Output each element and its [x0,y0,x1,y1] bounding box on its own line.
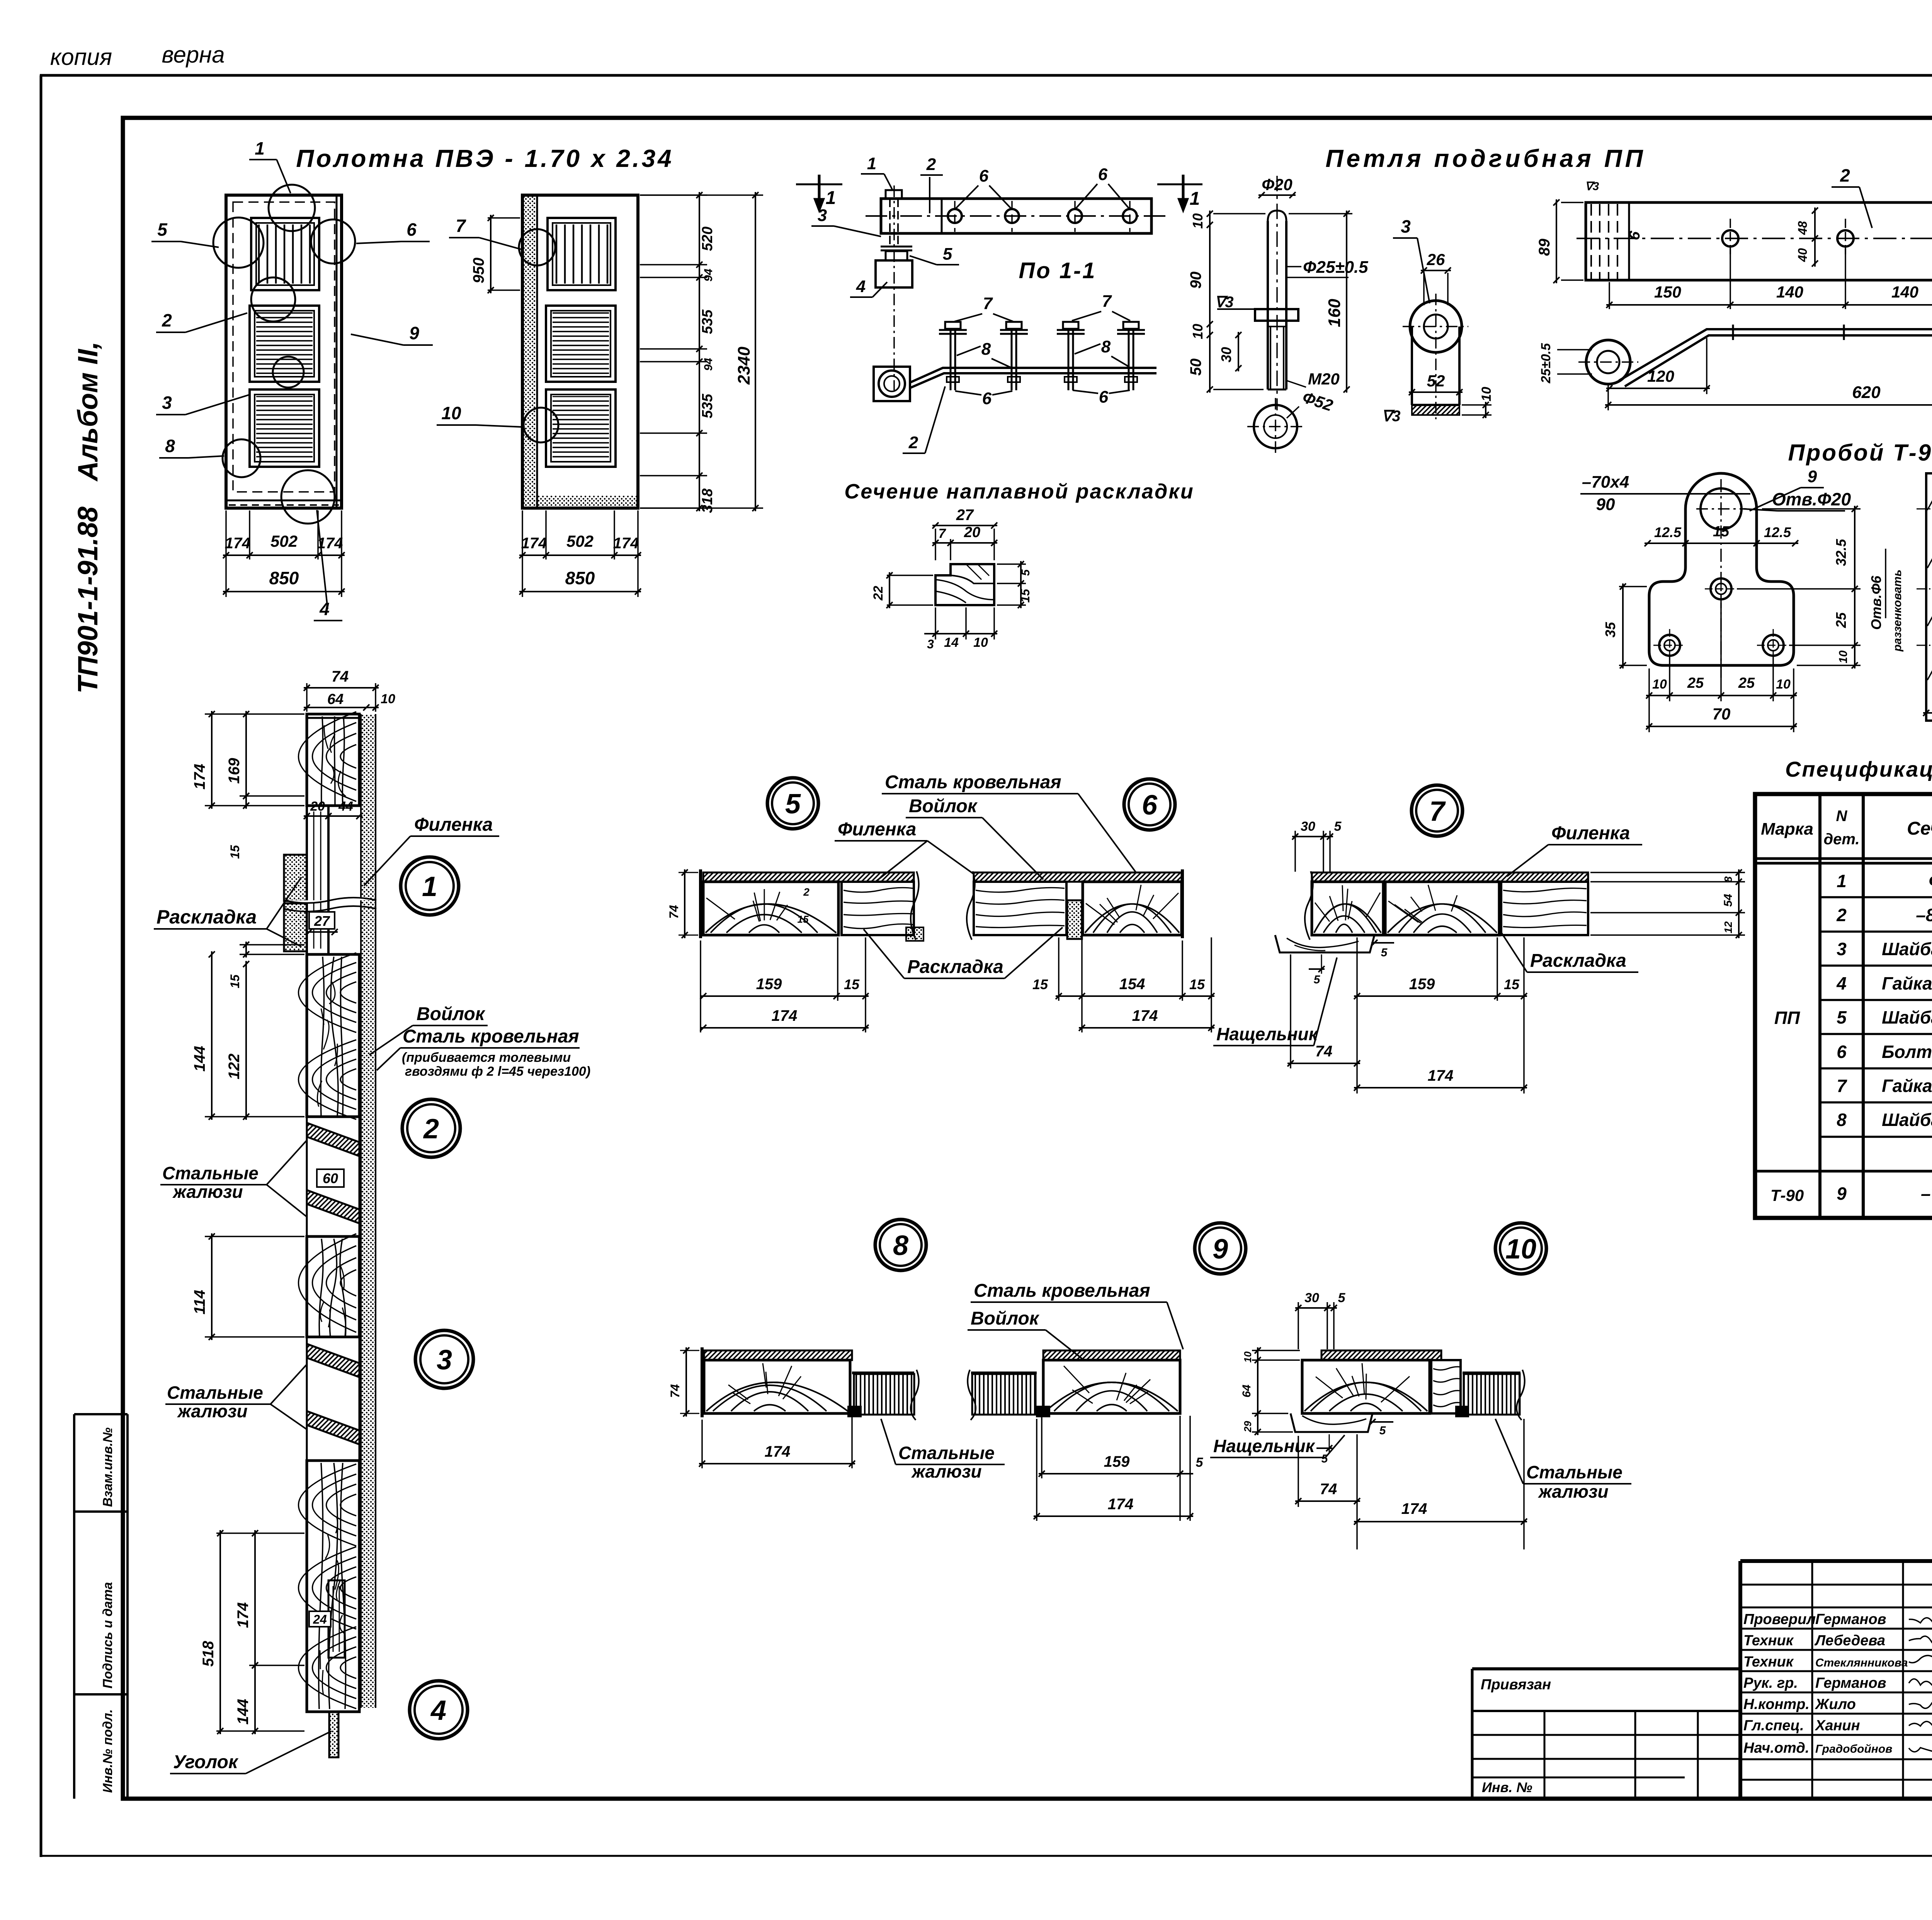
strap callout 2 [1832,165,1872,228]
svg-text:8: 8 [165,436,175,456]
svg-text:2: 2 [1840,165,1850,185]
bolt detail PP item 1 [1217,176,1298,410]
svg-text:30: 30 [1218,347,1234,362]
svg-text:30: 30 [1301,819,1315,834]
label stal krovelnaya 9 [971,1281,1183,1349]
strap dim 620 [1605,338,1932,410]
jamb joint small dims [304,799,362,935]
raskladka section detail [935,564,994,605]
svg-text:5: 5 [1379,1424,1386,1437]
svg-text:5: 5 [1334,819,1342,834]
privyazan table [1472,1669,1740,1799]
label Voylok jamb [369,1004,488,1055]
svg-text:Нащельник: Нащельник [1216,1024,1319,1044]
svg-text:74: 74 [1315,1043,1333,1060]
svg-text:52: 52 [1427,372,1445,390]
title block signature grid [1740,1561,1932,1799]
svg-text:∇3: ∇3 [1585,180,1599,193]
svg-text:Филенка: Филенка [414,815,493,835]
svg-text:174: 174 [613,535,639,552]
section 7 dims [1287,937,1527,1093]
svg-text:Рук. гр.: Рук. гр. [1743,1675,1798,1691]
section 7 right dim chain [1590,869,1745,938]
hinge bar callout 5 [910,245,959,265]
jamb felt and steel layer [361,714,376,1708]
label nashelnik 9 [1210,1435,1345,1457]
svg-text:27: 27 [314,913,330,929]
svg-text:9: 9 [1213,1234,1228,1265]
svg-text:Инв. №: Инв. № [1482,1779,1532,1795]
svg-text:Ханин: Ханин [1815,1718,1860,1734]
panel A callout 2 [156,310,247,332]
section 10 drawing [1291,1350,1525,1432]
panel A hatched panel 2 [250,389,319,467]
svg-text:174: 174 [521,535,547,552]
svg-text:850: 850 [269,568,299,588]
outer border left line [40,75,43,1857]
svg-text:Раскладка: Раскладка [907,957,1003,977]
svg-text:6: 6 [979,167,989,185]
svg-text:Шайба d20: Шайба d20 [1882,1007,1932,1027]
svg-text:Шайба d 16: Шайба d 16 [1882,1110,1932,1130]
svg-text:Стеклянникова: Стеклянникова [1815,1656,1908,1669]
svg-text:32.5: 32.5 [1833,539,1849,566]
svg-text:140: 140 [1776,283,1803,301]
section 10 dims [1295,1419,1527,1549]
svg-text:160: 160 [1325,299,1344,327]
section 6 dims [1032,937,1214,1032]
svg-text:159: 159 [1104,1453,1130,1470]
section mark 1-1 left [796,175,842,212]
svg-text:5: 5 [1837,1007,1847,1027]
jamb strip top dims [304,668,395,712]
svg-text:10: 10 [1190,213,1206,229]
section 10 left dim chain [1240,1347,1300,1435]
jamb dim 114 [191,1233,304,1340]
svg-text:5: 5 [1381,946,1388,959]
label filenka 7 [1507,823,1642,876]
svg-text:раззенковать: раззенковать [1891,570,1904,652]
T-90 callout 9 [1750,467,1824,511]
svg-text:6: 6 [406,219,417,240]
svg-text:Градобойнов: Градобойнов [1815,1743,1892,1755]
detail circle 6 [1124,779,1175,830]
svg-text:Техник: Техник [1743,1633,1794,1649]
section 7 drawing [1275,871,1588,952]
detail circle 8 [875,1219,926,1270]
panel A callout 8 [159,436,224,458]
detail circle 5 [767,778,818,829]
svg-text:74: 74 [668,1384,682,1398]
T-90 label -70x4 90 [1580,473,1750,514]
bolt label M20 [1287,370,1340,388]
svg-text:По 1-1: По 1-1 [1019,258,1096,283]
svg-text:5: 5 [1019,569,1032,576]
svg-text:30: 30 [1304,1291,1319,1305]
svg-text:7: 7 [1837,1076,1847,1096]
svg-text:Филенка: Филенка [1551,823,1630,844]
svg-text:7: 7 [1102,292,1112,311]
svg-text:6: 6 [1837,1042,1847,1062]
svg-text:Ф25: Ф25 [1929,871,1932,891]
svg-text:3: 3 [927,637,934,651]
svg-text:10: 10 [441,403,461,423]
strap small dims 48 40 [1796,207,1818,267]
svg-text:Войлок: Войлок [417,1004,486,1024]
svg-text:N: N [1836,808,1848,825]
svg-text:Болт М16: Болт М16 [1882,1042,1932,1062]
assembly callouts 6 [955,388,1130,408]
jamb bottom corner piece [307,1712,359,1757]
bolt end view F52 [1247,388,1335,456]
svg-text:3: 3 [1401,216,1411,236]
jamb wood block 2 [307,954,359,1117]
svg-text:950: 950 [470,258,487,284]
svg-text:5: 5 [1196,1455,1204,1470]
svg-text:7: 7 [983,294,993,313]
svg-text:Полотна ПВЭ - 1.70 х 2.34: Полотна ПВЭ - 1.70 х 2.34 [296,145,674,172]
svg-text:174: 174 [772,1007,798,1024]
hinge bar callout 3 [811,206,881,236]
section 5 drawing [701,869,923,941]
svg-text:502: 502 [270,532,298,550]
svg-text:15: 15 [1189,976,1205,992]
hinge assembly section [874,367,1156,401]
svg-text:1: 1 [1190,189,1200,209]
T-90 dims 12.5 15 12.5 [1645,524,1798,549]
svg-text:25: 25 [1687,675,1704,691]
steel specification table [1755,794,1932,1218]
svg-text:Т-90: Т-90 [1770,1186,1804,1204]
svg-text:174: 174 [317,535,343,552]
T-90 side view [1917,473,1932,721]
left margin stamp boxes [74,1414,128,1799]
svg-text:60: 60 [323,1170,338,1186]
strap side dim 25 [1539,343,1592,384]
svg-text:502: 502 [566,532,594,550]
svg-text:4: 4 [430,1695,446,1726]
section 8 left thickness dim [668,1347,699,1417]
svg-text:4: 4 [319,599,330,619]
svg-text:Сечение наплавной раскладки: Сечение наплавной раскладки [844,480,1194,503]
svg-text:50: 50 [1187,359,1204,376]
svg-text:2: 2 [162,310,172,330]
svg-text:174: 174 [191,764,208,790]
svg-text:10: 10 [1242,1351,1253,1362]
panel B detail circles [519,229,558,442]
svg-text:140: 140 [1891,283,1918,301]
svg-text:174: 174 [225,535,251,552]
svg-text:1: 1 [255,138,265,158]
label Raskladka jamb [154,877,301,947]
section 7 nashelnik small dims [1309,940,1394,986]
washer thickness 10 [1462,387,1494,418]
svg-text:10: 10 [381,692,395,706]
svg-text:2: 2 [423,1114,439,1145]
svg-text:5: 5 [157,219,168,240]
svg-text:520: 520 [699,226,716,251]
svg-text:174: 174 [765,1443,791,1460]
label raskladka 5 [864,927,1063,978]
svg-text:6: 6 [982,389,992,408]
panel B hatched panel 2 [546,389,616,467]
svg-text:7: 7 [1429,796,1446,827]
jamb wood block 1 [307,714,359,806]
svg-text:Петля подгибная ПП: Петля подгибная ПП [1325,145,1646,172]
svg-text:74: 74 [332,668,349,685]
svg-text:Стальные: Стальные [162,1163,259,1183]
svg-text:174: 174 [1108,1496,1134,1513]
label Stalnye zhalyuzi 1 [160,1140,307,1217]
hinge bar callout 2 [920,155,943,213]
T-90 plate front view [1649,473,1794,680]
outer border top line [40,74,1932,77]
section 7 top dims 30 5 [1292,819,1342,872]
svg-text:Шайба d 26: Шайба d 26 [1882,939,1932,959]
svg-text:29: 29 [1242,1421,1253,1432]
svg-text:144: 144 [235,1699,252,1725]
svg-text:15: 15 [1713,524,1730,540]
T-90 small holes [1653,573,1789,662]
svg-text:5: 5 [1338,1291,1346,1305]
svg-text:159: 159 [1409,976,1435,993]
bolt dim 160 [1289,211,1352,393]
bolt dim F25 [1286,258,1368,277]
svg-text:20: 20 [310,799,325,814]
hinge bar callouts 6 [955,165,1130,209]
svg-text:15: 15 [844,976,860,992]
washer detail item 3 [1403,294,1468,419]
svg-text:2: 2 [1836,905,1847,925]
svg-text:10: 10 [1505,1234,1536,1265]
svg-text:Сечение: Сечение [1907,818,1932,839]
svg-text:дет.: дет. [1823,831,1859,848]
svg-text:ПП: ПП [1774,1008,1800,1028]
svg-text:94: 94 [702,269,715,282]
svg-text:2340: 2340 [735,347,753,385]
svg-text:535: 535 [699,393,716,418]
jamb steel louvre zone 1 [307,1117,359,1236]
svg-text:20: 20 [964,524,980,541]
svg-text:Инв.№ подл.: Инв.№ подл. [100,1709,115,1793]
svg-text:Н.контр.: Н.контр. [1743,1696,1810,1713]
svg-text:2: 2 [803,886,810,898]
panel A callout 9 [351,323,433,345]
svg-text:Техник: Техник [1743,1654,1794,1670]
svg-text:∇3: ∇3 [1214,294,1233,311]
svg-text:44: 44 [338,799,353,814]
svg-text:8: 8 [981,340,991,359]
label voylok 5 [906,796,1043,879]
svg-text:гвоздями ф 2 l=45 через100): гвоздями ф 2 l=45 через100) [405,1064,590,1079]
svg-text:6: 6 [1142,790,1158,821]
svg-text:620: 620 [1852,383,1881,402]
svg-text:10: 10 [1776,677,1791,692]
title block signature rows text [1743,1611,1932,1756]
panel B callout 10 [437,403,522,427]
svg-text:169: 169 [226,758,243,784]
svg-text:25±0.5: 25±0.5 [1539,343,1553,384]
svg-text:150: 150 [1654,283,1681,301]
svg-text:159: 159 [756,976,782,993]
T-90 bottom dims [1646,603,1797,732]
panel A callout 4 [314,510,342,621]
svg-text:7: 7 [939,526,947,541]
svg-text:9: 9 [1808,467,1817,486]
detail circle 9 [1195,1223,1246,1274]
svg-text:Германов: Германов [1815,1675,1886,1691]
detail circle 10 [1495,1223,1546,1274]
label stalnye zhalyuzi 8 [881,1419,1005,1481]
jamb wood block 4 [299,1461,360,1712]
svg-text:74: 74 [1320,1481,1337,1498]
svg-text:154: 154 [1119,976,1145,993]
label Filenka jamb [364,815,499,886]
svg-text:1: 1 [422,871,437,902]
svg-text:Гл.спец.: Гл.спец. [1743,1718,1804,1734]
panel A detail circles [213,185,355,524]
panel B lower dimensions [519,510,641,597]
svg-text:9: 9 [1837,1184,1847,1204]
label filenka 5 [835,819,974,881]
svg-text:25: 25 [1738,675,1755,691]
svg-text:89: 89 [1536,238,1553,256]
svg-text:3: 3 [1837,939,1847,959]
svg-text:7: 7 [456,216,466,236]
svg-text:94: 94 [702,358,715,371]
svg-text:Марка: Марка [1761,820,1813,838]
T-90 label Otv F6 [1868,549,1904,652]
washer dim 52 [1409,372,1463,395]
svg-text:Подпись и дата: Подпись и дата [100,1582,115,1689]
svg-text:5: 5 [943,245,952,264]
svg-text:Альбом II,: Альбом II, [73,342,104,482]
detail circle 2 [402,1099,460,1157]
svg-text:Стальные: Стальные [167,1383,263,1403]
svg-text:Лебедева: Лебедева [1814,1633,1885,1649]
detail circle 4 [410,1681,468,1739]
svg-text:Гайка М16: Гайка М16 [1882,1076,1932,1096]
svg-text:74: 74 [667,905,681,919]
washer dim 26 [1421,250,1451,305]
svg-text:850: 850 [565,568,595,588]
svg-text:14: 14 [944,635,959,650]
svg-text:Сталь кровельная: Сталь кровельная [885,772,1061,792]
panel A callout 1 [249,138,291,193]
panel B callout 7 and dim 950 [449,215,521,293]
svg-text:70: 70 [1713,705,1731,723]
outer border bottom line [40,1855,1932,1857]
label stalnye zhalyuzi 10 [1495,1419,1631,1502]
assembly callouts 8 [957,337,1128,368]
handwritten note kopiya verna [50,42,225,70]
svg-text:6: 6 [1099,388,1109,406]
svg-text:174: 174 [1132,1007,1158,1024]
svg-text:Сталь кровельная: Сталь кровельная [403,1026,579,1047]
panel B hatched panel 1 [546,306,616,382]
svg-text:90: 90 [1187,272,1204,289]
hinge bar callout 4 [850,277,887,297]
detail circle 1 [401,857,459,915]
label Stalnye zhalyuzi 2 [165,1364,307,1430]
svg-text:25: 25 [1833,612,1849,628]
svg-text:35: 35 [1602,622,1618,638]
assembly U-bolt clamp 2 [1057,322,1145,390]
svg-text:Спецификация стали на одно: Спецификация стали на одно изделие [1785,757,1932,781]
svg-text:22: 22 [871,586,886,601]
section 10 top dims 30 5 [1295,1291,1346,1349]
hinge strap top view item 2 [1577,202,1932,280]
label raskladka 7 [1499,929,1638,972]
svg-text:Нач.отд.: Нач.отд. [1743,1740,1809,1756]
svg-text:верна: верна [162,42,224,68]
svg-text:Жило: Жило [1815,1696,1856,1713]
svg-text:Нащельник: Нащельник [1213,1436,1316,1456]
svg-text:–70х4: –70х4 [1582,473,1629,491]
jamb steel louvre zone 2 [307,1337,359,1461]
svg-text:3: 3 [437,1345,452,1376]
svg-text:15: 15 [228,845,242,859]
svg-text:8: 8 [893,1230,908,1261]
svg-text:2: 2 [926,155,936,174]
svg-text:Отв.Ф6: Отв.Ф6 [1868,575,1884,630]
hinge bar callout 1 [861,154,893,190]
svg-text:ТП901-1-91.88: ТП901-1-91.88 [73,507,104,694]
bolt dim F20 [1259,175,1296,198]
svg-text:12.5: 12.5 [1654,524,1682,540]
jamb bottom dim chain [200,1530,331,1734]
svg-text:64: 64 [1240,1384,1253,1398]
svg-text:–70х4: –70х4 [1921,1184,1932,1204]
svg-text:64: 64 [327,691,344,707]
panel A louver panel [251,218,319,290]
svg-text:15: 15 [228,974,242,988]
svg-text:Филенка: Филенка [838,819,916,840]
svg-text:174: 174 [1428,1067,1454,1084]
strap dim 89 left [1536,180,1599,283]
section mark 1-1 right [1157,175,1202,212]
svg-text:48: 48 [1796,221,1810,235]
svg-text:27: 27 [956,507,974,524]
jamb wood block 3 [307,1236,359,1337]
svg-text:122: 122 [226,1054,243,1080]
section 9 dims [1034,1416,1204,1521]
jamb raskladka joint [284,806,376,954]
svg-text:∇3: ∇3 [1381,408,1400,425]
panel A hatched panel 1 [250,306,319,382]
section 10 small dim 5 [1316,1419,1393,1465]
svg-text:144: 144 [191,1046,208,1072]
strap dim 120 [1606,338,1710,394]
bolt left dim chain [1187,211,1265,393]
svg-text:1: 1 [1837,871,1847,891]
svg-text:518: 518 [200,1641,217,1667]
svg-text:10: 10 [973,635,988,650]
svg-text:5: 5 [1314,973,1321,986]
jamb dim chain 174-169-15 [191,711,304,859]
svg-text:Стальные: Стальные [1526,1462,1622,1482]
svg-text:Привязан: Привязан [1481,1677,1551,1693]
section 5 dims [700,937,869,1032]
panel B right dimension chain [640,192,763,513]
svg-text:90: 90 [1596,495,1615,514]
svg-text:1: 1 [826,188,836,208]
svg-text:4: 4 [1836,973,1847,993]
jamb dim 15 below joint [228,942,304,988]
svg-text:Войлок: Войлок [909,796,978,816]
svg-text:120: 120 [1647,367,1674,385]
detail circle 7 [1412,785,1463,836]
